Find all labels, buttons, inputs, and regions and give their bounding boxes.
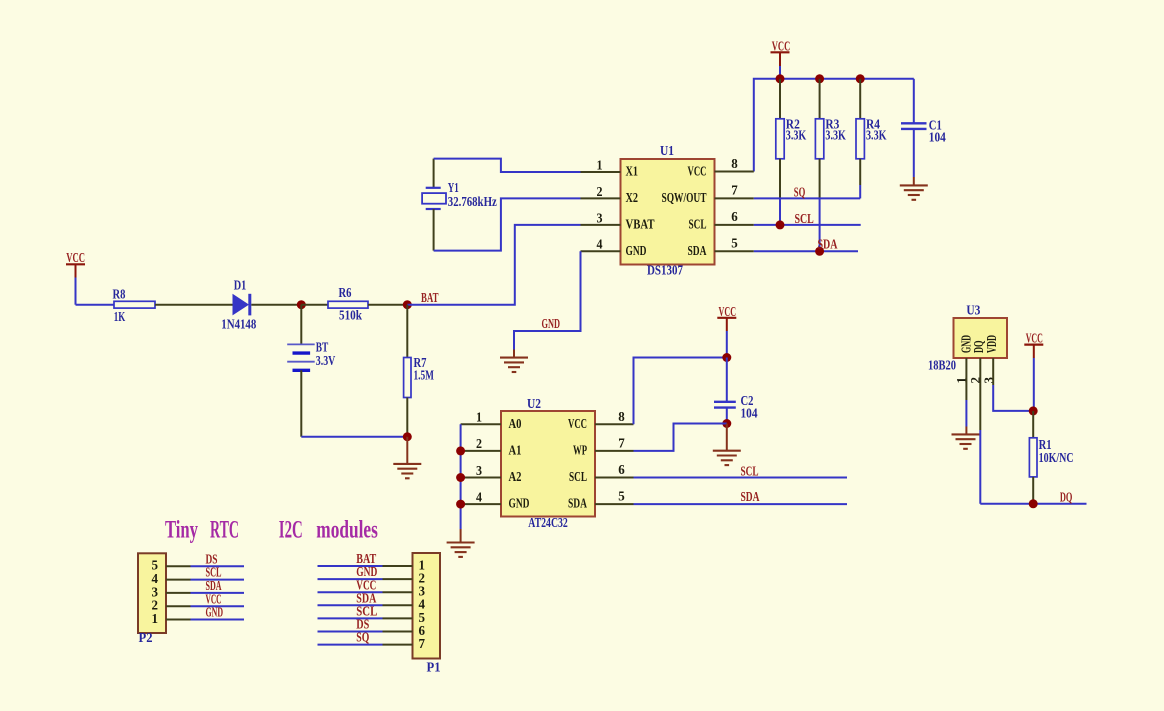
svg-text:Tiny: Tiny xyxy=(165,517,198,544)
P1 pin wire GND xyxy=(318,578,413,580)
U2 pin stub 2 xyxy=(461,450,501,452)
U1 pin name VCC xyxy=(688,164,707,179)
label R7 1.5M xyxy=(414,355,435,383)
svg-text:A1: A1 xyxy=(509,443,522,458)
U3 pin name VDD (rotated) xyxy=(984,335,999,353)
label R4 3.3K xyxy=(866,117,887,143)
U1 pin stub 3 xyxy=(581,224,621,226)
svg-text:1: 1 xyxy=(152,611,159,626)
svg-text:1: 1 xyxy=(476,410,482,425)
node BAT xyxy=(403,300,412,309)
node ladder pin4 xyxy=(456,500,465,509)
svg-text:VCC: VCC xyxy=(772,39,791,54)
svg-text:VBAT: VBAT xyxy=(626,217,655,232)
wire VCC to R8 xyxy=(76,304,115,306)
label GND (P1) xyxy=(356,564,377,579)
power symbol VCC (above C2) xyxy=(717,304,736,357)
label AT24C32 xyxy=(528,515,568,530)
label R1 10K/NC xyxy=(1039,437,1074,465)
label BAT (P1) xyxy=(356,551,376,566)
capacitor C1 xyxy=(901,79,927,186)
U3 pin numbers rotated 1 2 3 xyxy=(954,377,996,384)
svg-text:VCC: VCC xyxy=(719,304,737,319)
svg-text:4: 4 xyxy=(597,237,603,252)
label C1 104 xyxy=(929,118,946,145)
svg-text:104: 104 xyxy=(929,130,946,145)
label DS (P2) xyxy=(206,551,218,566)
node C2 top xyxy=(722,353,731,362)
U1 pin name SCL xyxy=(689,217,707,232)
svg-text:3.3K: 3.3K xyxy=(786,128,807,143)
U1 pin stub 5 xyxy=(715,250,754,252)
label VCC (P2) xyxy=(206,591,222,606)
svg-text:SQW/OUT: SQW/OUT xyxy=(662,190,707,205)
label BAT xyxy=(421,290,439,305)
node SDA-R3 xyxy=(815,247,824,256)
svg-text:GND: GND xyxy=(509,496,530,511)
label D1 1N4148 xyxy=(221,278,256,332)
P2 pin wire GND xyxy=(166,619,244,621)
svg-text:7: 7 xyxy=(618,436,625,451)
label R2 3.3K xyxy=(786,117,807,143)
svg-text:P1: P1 xyxy=(427,660,441,675)
wire U2 address ladder xyxy=(460,424,462,529)
svg-text:1.5M: 1.5M xyxy=(414,368,435,383)
U3 pin 2 lead xyxy=(979,358,981,504)
P1 pin wire SQ xyxy=(318,644,413,646)
svg-text:Y1: Y1 xyxy=(448,180,459,195)
U1 pin stub 2 xyxy=(581,197,621,199)
P2 pin wire VCC xyxy=(166,605,244,607)
label SDA (U2) xyxy=(741,489,760,504)
svg-text:7: 7 xyxy=(419,636,426,651)
node R7 bottom xyxy=(403,432,412,441)
wire X2 to crystal bottom xyxy=(434,198,581,250)
connector P1 body xyxy=(413,553,441,659)
label SQ xyxy=(794,185,806,200)
svg-text:510k: 510k xyxy=(339,308,362,323)
svg-text:X2: X2 xyxy=(626,190,639,205)
svg-text:5: 5 xyxy=(618,489,625,504)
svg-text:R8: R8 xyxy=(113,287,126,302)
wire U2 VCC pin to C2 top xyxy=(634,358,727,425)
U2 pin numbers right 8 7 6 5 xyxy=(618,409,625,504)
svg-text:6: 6 xyxy=(731,209,738,224)
svg-text:SDA: SDA xyxy=(688,243,707,258)
wire battery bottom xyxy=(301,436,407,438)
P1 pin wire DS xyxy=(318,631,413,633)
crystal Y1 xyxy=(422,159,446,251)
svg-text:U3: U3 xyxy=(966,302,980,317)
svg-text:1: 1 xyxy=(597,157,603,172)
node ladder pin3 xyxy=(456,473,465,482)
power symbol VCC (U3) xyxy=(1024,331,1043,411)
svg-text:X1: X1 xyxy=(626,164,639,179)
IC U2 AT24C32 body xyxy=(501,411,595,517)
svg-text:SCL: SCL xyxy=(689,217,707,232)
ground below R7 xyxy=(393,437,421,479)
ground below C2 xyxy=(713,424,741,466)
battery BT xyxy=(287,305,315,437)
U1 pin name GND xyxy=(626,243,647,258)
power symbol VCC (top, above R2) xyxy=(771,39,791,79)
connector P2 body xyxy=(138,553,166,633)
U1 pin numbers right 8 7 6 5 xyxy=(731,156,738,250)
svg-text:6: 6 xyxy=(618,462,625,477)
ground below U3 pin1 xyxy=(952,427,980,449)
U2 pin stub 6 xyxy=(595,477,634,479)
svg-text:2: 2 xyxy=(597,184,603,199)
wire SDA net of U1 xyxy=(754,250,858,252)
U2 pin name A2 xyxy=(509,469,522,484)
resistor R4 xyxy=(856,79,864,199)
label SDA (P1) xyxy=(356,590,376,605)
svg-text:2: 2 xyxy=(476,436,482,451)
svg-text:RTC: RTC xyxy=(210,517,239,544)
node SCL-R2 xyxy=(776,220,785,229)
U1 pin numbers left 1 2 3 4 xyxy=(597,157,603,251)
label U1 xyxy=(660,143,674,158)
U2 pin name SDA xyxy=(568,496,587,511)
U2 pin stub 3 xyxy=(461,477,501,479)
U2 pin stub 1 xyxy=(461,423,501,425)
label U2 xyxy=(527,396,541,411)
wire SCL net of U2 xyxy=(634,477,848,479)
node bus-R3 xyxy=(815,74,824,83)
node ladder pin2 xyxy=(456,446,465,455)
U1 pin name X1 xyxy=(626,164,639,179)
svg-text:U1: U1 xyxy=(660,143,674,158)
svg-text:8: 8 xyxy=(731,156,738,171)
label U3 xyxy=(966,302,980,317)
capacitor C2 xyxy=(714,358,736,424)
svg-text:3.3K: 3.3K xyxy=(866,128,887,143)
svg-text:I2C: I2C xyxy=(279,517,303,544)
svg-text:SDA: SDA xyxy=(568,496,587,511)
label SCL (U2) xyxy=(741,464,759,479)
label SQ (P1) xyxy=(356,630,369,645)
U2 pin stub 5 xyxy=(595,503,634,505)
resistor R2 xyxy=(776,79,784,225)
title I2C modules xyxy=(279,517,378,544)
svg-text:AT24C32: AT24C32 xyxy=(528,515,568,530)
svg-text:VCC: VCC xyxy=(688,164,707,179)
U2 pin name VCC xyxy=(568,416,587,431)
label 18B20 xyxy=(928,358,956,373)
svg-text:4: 4 xyxy=(476,489,482,504)
svg-text:SCL: SCL xyxy=(569,469,587,484)
svg-text:GND: GND xyxy=(206,605,224,620)
node DQ-R1 xyxy=(1029,499,1038,508)
svg-text:SCL: SCL xyxy=(795,211,814,226)
svg-text:10K/NC: 10K/NC xyxy=(1039,450,1074,465)
P2 pin wire SDA xyxy=(166,592,244,594)
node bus-R4 xyxy=(856,74,865,83)
U1 pin name SQW/OUT xyxy=(662,190,707,205)
wire C2 bottom to WP xyxy=(634,424,727,451)
label DS1307 xyxy=(647,263,683,278)
label SDA (P2) xyxy=(206,578,222,593)
label GND (P2) xyxy=(206,605,224,620)
svg-text:18B20: 18B20 xyxy=(928,358,956,373)
label SCL (P2) xyxy=(206,565,222,580)
IC U1 DS1307 body xyxy=(621,159,715,265)
label SCL (U1) xyxy=(795,211,814,226)
wire BAT to VBAT xyxy=(407,225,580,305)
svg-text:P2: P2 xyxy=(139,630,153,645)
wire X1 to crystal top xyxy=(434,159,581,172)
svg-text:A0: A0 xyxy=(509,416,522,431)
svg-text:GND: GND xyxy=(626,243,647,258)
svg-text:VDD: VDD xyxy=(984,335,999,353)
node battery tap xyxy=(297,300,306,309)
svg-text:VCC: VCC xyxy=(568,416,587,431)
U3 pin 3 lead xyxy=(993,358,1033,411)
label SCL (P1) xyxy=(356,604,377,619)
svg-text:DQ: DQ xyxy=(1060,490,1073,505)
ground of U1 GND xyxy=(500,350,528,373)
U1 pin stub 6 xyxy=(715,224,754,226)
label SDA (U1) xyxy=(818,237,838,252)
U1 pin name SDA xyxy=(688,243,707,258)
label P1 xyxy=(427,660,441,675)
U2 pin name A0 xyxy=(509,416,522,431)
U3 pin 1 lead xyxy=(965,358,967,427)
U2 pin numbers left 1 2 3 4 xyxy=(476,410,482,505)
P1 pin wire SCL xyxy=(318,617,413,619)
ground below U2 ladder xyxy=(447,529,475,557)
svg-text:DS1307: DS1307 xyxy=(647,263,683,278)
label R3 3.3K xyxy=(825,117,846,143)
svg-text:5: 5 xyxy=(731,235,738,250)
resistor R6 xyxy=(301,301,407,308)
title Tiny RTC xyxy=(165,517,239,544)
P1 pin wire SDA xyxy=(318,604,413,606)
U1 pin stub 4 xyxy=(581,250,621,252)
wire SCL net of U1 xyxy=(754,224,861,226)
svg-text:104: 104 xyxy=(741,406,758,421)
resistor R8 xyxy=(114,301,233,308)
svg-text:8: 8 xyxy=(618,409,625,424)
svg-text:D1: D1 xyxy=(234,278,247,293)
label R6 510k xyxy=(339,285,363,322)
svg-text:1N4148: 1N4148 xyxy=(221,317,256,332)
U2 pin stub 7 xyxy=(595,450,634,452)
label GND net xyxy=(542,316,561,331)
svg-text:1K: 1K xyxy=(114,309,126,324)
U1 pin name VBAT xyxy=(626,217,655,232)
U1 pin stub 1 xyxy=(581,171,621,173)
svg-text:SQ: SQ xyxy=(356,630,369,645)
svg-text:modules: modules xyxy=(316,517,378,544)
U1 pin stub 7 xyxy=(715,197,754,199)
label VCC (P1) xyxy=(356,577,376,592)
resistor R7 xyxy=(404,305,411,437)
svg-text:VCC: VCC xyxy=(66,250,85,265)
label R8 1K xyxy=(113,287,126,325)
label P2 xyxy=(139,630,153,645)
svg-text:U2: U2 xyxy=(527,396,541,411)
P1 pin wire VCC xyxy=(318,591,413,593)
wire VCC top bus xyxy=(754,79,914,172)
label C2 104 xyxy=(741,393,758,421)
node C2 bottom xyxy=(722,419,731,428)
P2 pin numbers 5 4 3 2 1 xyxy=(152,558,159,626)
svg-text:SDA: SDA xyxy=(818,237,838,252)
power symbol VCC (left) xyxy=(66,250,85,305)
U2 pin name A1 xyxy=(509,443,522,458)
wire DQ net xyxy=(980,503,1086,505)
resistor R3 xyxy=(815,79,823,252)
wire SQ net xyxy=(754,197,860,199)
label Y1 32.768kHz xyxy=(448,180,497,209)
U3 pin name DQ (rotated) xyxy=(971,341,986,354)
svg-text:SDA: SDA xyxy=(741,489,760,504)
svg-text:R6: R6 xyxy=(339,285,352,300)
diode D1 1N4148 xyxy=(233,294,302,316)
svg-text:WP: WP xyxy=(573,443,587,458)
svg-text:3: 3 xyxy=(476,463,482,478)
P2 pin wire DS xyxy=(166,565,244,567)
U1 pin stub 8 xyxy=(715,171,754,173)
P2 pin wire SCL xyxy=(166,579,244,581)
U2 pin name WP xyxy=(573,443,587,458)
U1 pin name X2 xyxy=(626,190,639,205)
label DS (P1) xyxy=(356,617,369,632)
svg-text:3.3V: 3.3V xyxy=(316,353,336,368)
svg-text:SCL: SCL xyxy=(741,464,759,479)
svg-text:3: 3 xyxy=(597,210,603,225)
label BT 3.3V xyxy=(316,340,336,368)
wire SDA net of U2 xyxy=(634,503,848,505)
svg-text:32.768kHz: 32.768kHz xyxy=(448,194,497,209)
svg-text:SQ: SQ xyxy=(794,185,806,200)
U2 pin stub 8 xyxy=(595,423,634,425)
U3 pin name GND (rotated) xyxy=(958,335,973,353)
IC U3 18B20 body xyxy=(954,318,1008,358)
svg-text:GND: GND xyxy=(542,316,561,331)
U2 pin name GND xyxy=(509,496,530,511)
svg-text:3.3K: 3.3K xyxy=(825,128,846,143)
U2 pin name SCL xyxy=(569,469,587,484)
ground below C1 xyxy=(900,185,928,199)
label DQ xyxy=(1060,490,1073,505)
node bus-R2 xyxy=(776,74,785,83)
node VDD-R1 xyxy=(1029,406,1038,415)
U2 pin stub 4 xyxy=(461,503,501,505)
svg-text:VCC: VCC xyxy=(1026,331,1043,346)
resistor R1 xyxy=(1029,411,1037,504)
P1 pin numbers 1-7 xyxy=(419,557,426,651)
svg-text:BAT: BAT xyxy=(421,290,439,305)
svg-text:7: 7 xyxy=(731,182,738,197)
svg-text:A2: A2 xyxy=(509,469,522,484)
P1 pin wire BAT xyxy=(318,565,413,567)
wire U1 GND pin to ground xyxy=(514,251,581,349)
